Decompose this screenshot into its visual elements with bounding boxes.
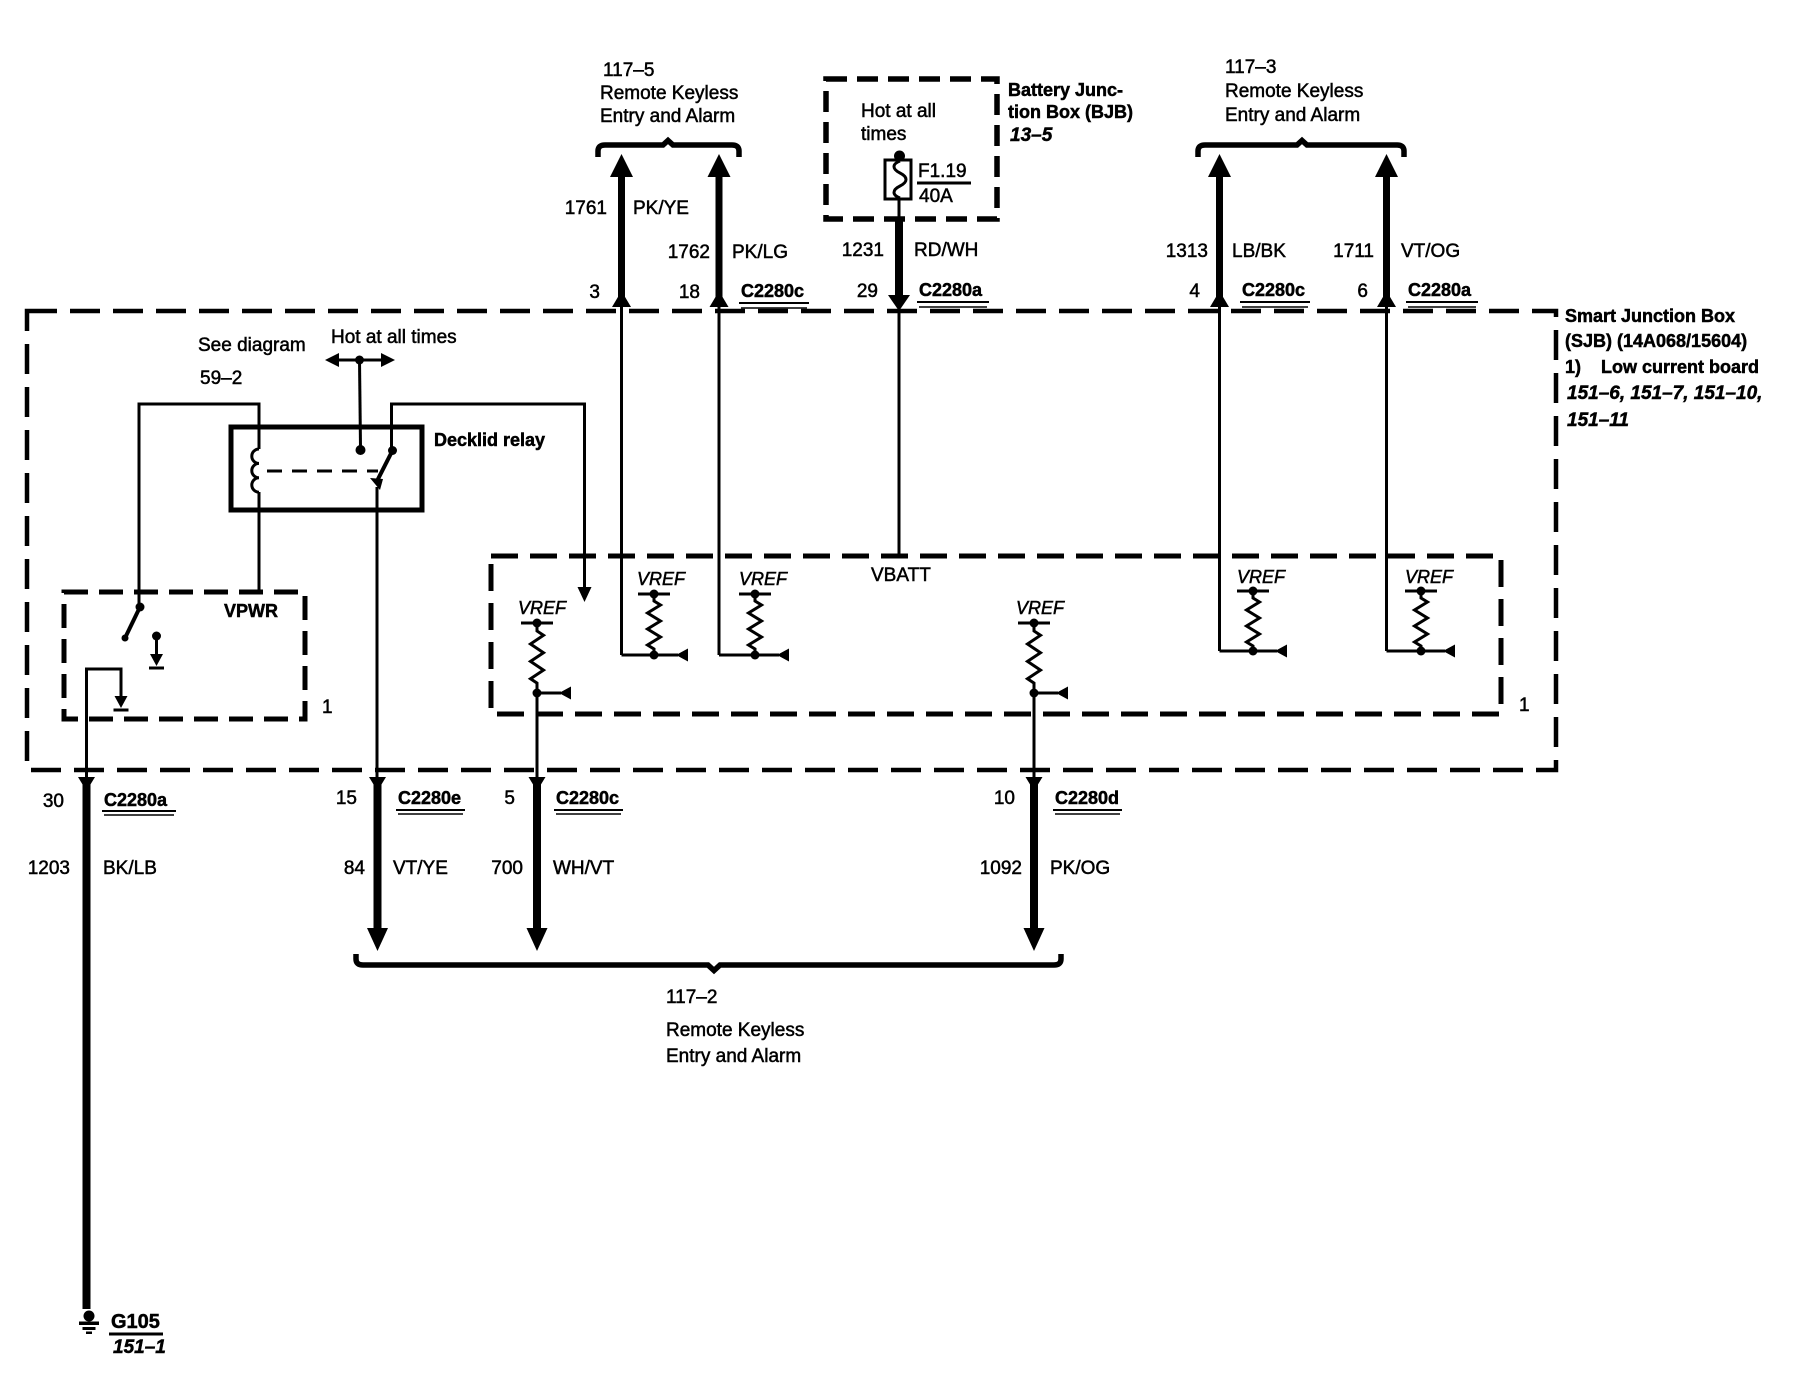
BJB labels <box>861 80 1133 146</box>
svg-text:C2280a: C2280a <box>1408 280 1472 300</box>
svg-text:151–6, 151–7, 151–10,: 151–6, 151–7, 151–10, <box>1567 383 1762 404</box>
svg-text:Remote Keyless: Remote Keyless <box>666 1020 804 1041</box>
Smart Junction Box label <box>1565 306 1762 431</box>
arrow into low current board <box>578 587 592 602</box>
svg-text:3: 3 <box>589 282 600 303</box>
svg-text:6: 6 <box>1357 281 1368 302</box>
VPWR output hook wire <box>87 669 122 779</box>
fuse F1.19 40A <box>885 151 971 208</box>
relay armature dashed link <box>267 470 378 473</box>
svg-text:1) Low current board: 1) Low current board <box>1565 357 1759 377</box>
svg-text:15: 15 <box>336 788 357 809</box>
svg-text:Entry and Alarm: Entry and Alarm <box>600 106 735 127</box>
wire: See diagram feed to relay coil <box>139 404 259 607</box>
resistor VREF (pin 5 leg) <box>518 598 571 700</box>
svg-text:1761: 1761 <box>565 198 607 219</box>
wire pin 3 (1761 PK/YE) <box>565 154 689 655</box>
svg-text:See diagram: See diagram <box>198 335 306 356</box>
svg-text:Battery Junc-: Battery Junc- <box>1008 80 1123 100</box>
svg-text:LB/BK: LB/BK <box>1232 241 1286 262</box>
svg-text:1313: 1313 <box>1166 241 1208 262</box>
117-3 destination label <box>1225 57 1363 126</box>
wire relay output to pin 15 <box>376 487 379 779</box>
svg-text:Remote Keyless: Remote Keyless <box>600 83 738 104</box>
coil return wire to VPWR <box>258 492 261 592</box>
svg-text:40A: 40A <box>919 186 953 207</box>
svg-text:1711: 1711 <box>1333 241 1374 262</box>
svg-text:84: 84 <box>344 858 366 879</box>
svg-text:700: 700 <box>491 858 523 879</box>
resistor VREF (pin 3 leg) <box>622 569 689 662</box>
svg-text:VREF: VREF <box>518 598 567 618</box>
Decklid relay box <box>231 427 422 510</box>
svg-text:PK/YE: PK/YE <box>633 198 689 219</box>
wire pin 4 (1313 LB/BK) <box>1166 154 1286 651</box>
resistor VREF (pin 4 leg) <box>1220 567 1288 658</box>
svg-text:Hot at all times: Hot at all times <box>331 327 457 348</box>
wire pin 18 (1762 PK/LG) <box>668 154 788 655</box>
relay coil <box>252 449 259 492</box>
svg-text:1203: 1203 <box>28 858 70 879</box>
svg-text:C2280c: C2280c <box>741 281 804 301</box>
svg-text:VREF: VREF <box>1016 598 1065 618</box>
resistor VREF (pin 6 leg) <box>1387 567 1456 658</box>
svg-text:5: 5 <box>504 788 515 809</box>
svg-text:VREF: VREF <box>1237 567 1286 587</box>
svg-text:Entry and Alarm: Entry and Alarm <box>666 1046 801 1067</box>
svg-text:VPWR: VPWR <box>224 601 278 621</box>
bracket 117-2 <box>356 954 1061 971</box>
wire resistor to pin 10 <box>1033 693 1036 779</box>
bracket 117-5 <box>598 141 739 158</box>
svg-text:C2280a: C2280a <box>919 280 983 300</box>
svg-text:tion Box (BJB): tion Box (BJB) <box>1008 102 1133 122</box>
svg-text:Entry and Alarm: Entry and Alarm <box>1225 105 1360 126</box>
svg-text:1231: 1231 <box>842 240 884 261</box>
svg-text:1762: 1762 <box>668 242 710 263</box>
svg-text:times: times <box>861 124 906 145</box>
pin 5 wire (700 WH/VT) <box>491 777 623 951</box>
svg-text:G105: G105 <box>111 1311 160 1333</box>
117-5 destination label <box>600 60 738 127</box>
Battery Junction Box BJB dashed box <box>826 79 997 219</box>
svg-text:VREF: VREF <box>1405 567 1454 587</box>
wire resistor to pin 5 <box>536 693 539 779</box>
svg-text:VT/OG: VT/OG <box>1401 241 1460 262</box>
svg-text:C2280e: C2280e <box>398 788 461 808</box>
svg-text:4: 4 <box>1189 281 1200 302</box>
svg-text:30: 30 <box>43 791 64 812</box>
svg-text:117–5: 117–5 <box>603 60 654 81</box>
pin 29 entry arrowhead <box>888 295 910 311</box>
VPWR dashed box <box>64 592 305 719</box>
wire pin 6 (1711 VT/OG) <box>1333 154 1460 651</box>
svg-text:10: 10 <box>994 788 1015 809</box>
svg-text:117–3: 117–3 <box>1225 57 1276 78</box>
svg-text:1: 1 <box>1519 695 1530 716</box>
ground G105 <box>79 1311 166 1359</box>
wire fuse to pin 29 <box>898 199 901 221</box>
resistor VREF (pin 18 leg) <box>719 569 789 662</box>
svg-text:PK/LG: PK/LG <box>732 242 788 263</box>
svg-text:C2280c: C2280c <box>1242 280 1305 300</box>
VPWR switch <box>122 603 165 669</box>
svg-text:(SJB) (14A068/15604): (SJB) (14A068/15604) <box>1565 331 1747 351</box>
resistor VREF (pin 10 leg) <box>1016 598 1068 700</box>
svg-text:151–1: 151–1 <box>113 1337 166 1358</box>
low current board inner dashed box <box>491 556 1501 714</box>
svg-text:117–2: 117–2 <box>666 987 717 1008</box>
svg-text:Smart Junction Box: Smart Junction Box <box>1565 306 1735 326</box>
svg-text:VT/YE: VT/YE <box>393 858 448 879</box>
svg-text:PK/OG: PK/OG <box>1050 858 1110 879</box>
svg-text:13–5: 13–5 <box>1010 125 1053 146</box>
svg-text:C2280a: C2280a <box>104 790 168 810</box>
VBATT wire <box>898 311 901 556</box>
svg-text:F1.19: F1.19 <box>918 161 967 182</box>
svg-text:BK/LB: BK/LB <box>103 858 157 879</box>
svg-text:VREF: VREF <box>637 569 686 589</box>
svg-text:59–2: 59–2 <box>200 368 242 389</box>
svg-text:1: 1 <box>322 697 333 718</box>
svg-text:151–11: 151–11 <box>1567 410 1629 431</box>
Smart Junction Box SJB dashed outline <box>27 311 1556 770</box>
svg-text:RD/WH: RD/WH <box>914 240 978 261</box>
svg-text:C2280d: C2280d <box>1055 788 1119 808</box>
wire relay common up and over to board <box>392 404 585 589</box>
svg-text:Remote Keyless: Remote Keyless <box>1225 81 1363 102</box>
hot feed T with arrows <box>325 353 395 455</box>
svg-text:29: 29 <box>857 281 878 302</box>
svg-text:1092: 1092 <box>980 858 1022 879</box>
117-2 destination label <box>666 987 804 1067</box>
svg-text:WH/VT: WH/VT <box>553 858 615 879</box>
pin 30 wire to ground <box>28 777 176 1309</box>
pin 15 wire (84 VT/YE) <box>336 777 465 951</box>
svg-text:Decklid relay: Decklid relay <box>434 430 545 450</box>
pin 10 wire (1092 PK/OG) <box>980 777 1122 951</box>
svg-text:18: 18 <box>679 282 700 303</box>
bracket 117-3 <box>1198 141 1404 158</box>
svg-text:C2280c: C2280c <box>556 788 619 808</box>
svg-text:Hot at all: Hot at all <box>861 101 936 122</box>
svg-text:VBATT: VBATT <box>871 565 931 586</box>
relay switch <box>370 446 397 490</box>
svg-text:VREF: VREF <box>739 569 788 589</box>
